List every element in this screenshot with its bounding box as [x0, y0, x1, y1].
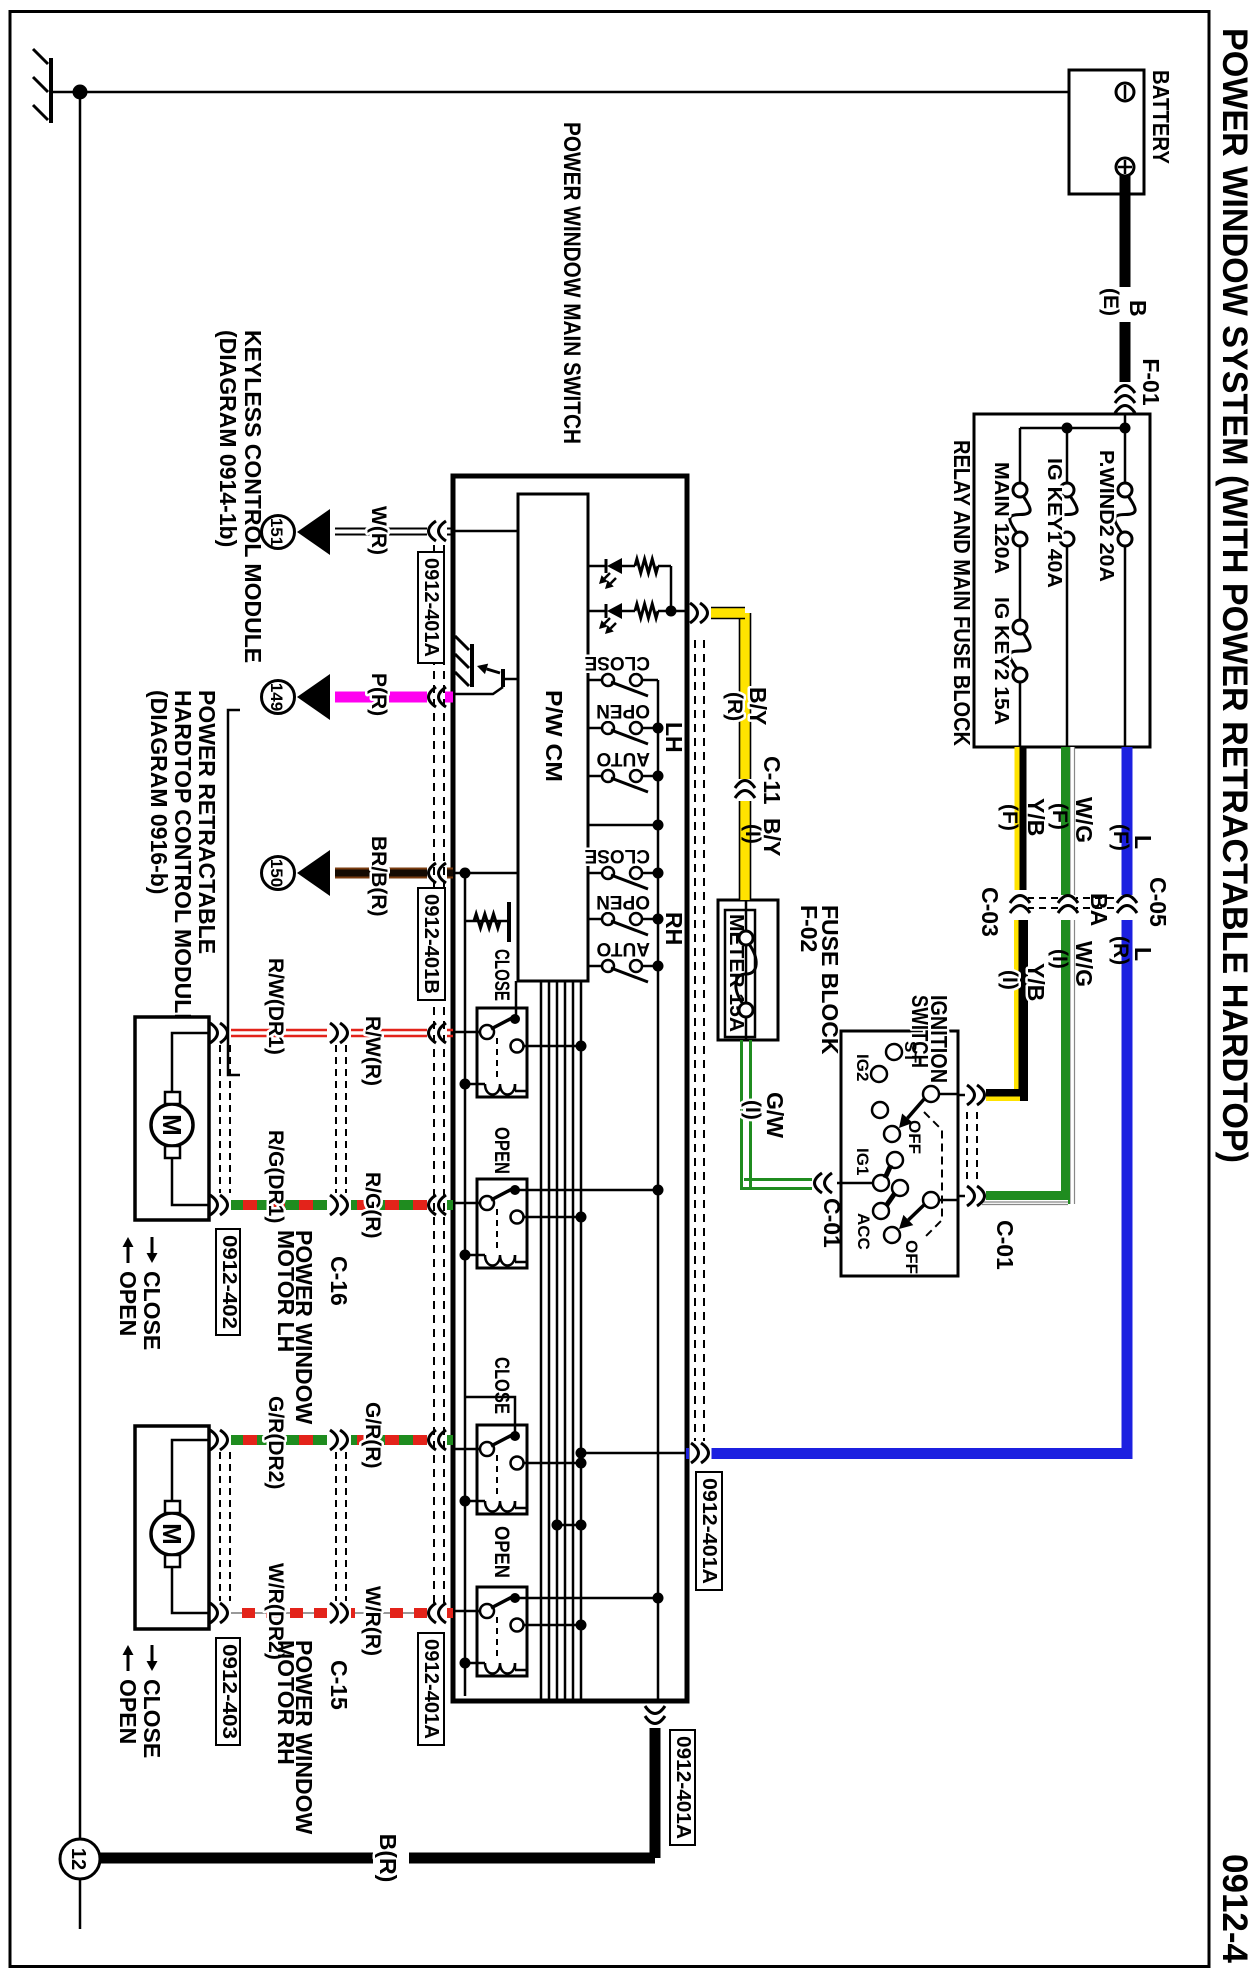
svg-text:KEYLESS CONTROL MODULE: KEYLESS CONTROL MODULE	[240, 330, 266, 663]
svg-text:CLOSE: CLOSE	[139, 1679, 165, 1758]
svg-text:(I): (I)	[1048, 949, 1071, 969]
svg-text:CLOSE: CLOSE	[585, 652, 650, 673]
svg-text:0912-402: 0912-402	[218, 1235, 240, 1329]
svg-text:OPEN: OPEN	[115, 1679, 141, 1744]
svg-text:(I): (I)	[741, 824, 764, 844]
svg-text:(F): (F)	[998, 804, 1021, 831]
svg-text:POWER RETRACTABLE: POWER RETRACTABLE	[194, 690, 220, 954]
svg-text:AUTO: AUTO	[597, 748, 650, 769]
svg-text:OPEN: OPEN	[596, 891, 650, 912]
svg-text:W/G: W/G	[1071, 941, 1097, 987]
svg-text:R/G(DR1): R/G(DR1)	[264, 1130, 287, 1223]
svg-text:(DIAGRAM 0916-b): (DIAGRAM 0916-b)	[146, 690, 172, 894]
svg-text:MOTOR RH: MOTOR RH	[273, 1640, 299, 1765]
svg-text:C-03: C-03	[977, 887, 1003, 937]
svg-text:(E): (E)	[1099, 288, 1122, 316]
svg-text:0912-401B: 0912-401B	[420, 894, 442, 994]
svg-text:C-01: C-01	[992, 1220, 1018, 1270]
svg-text:ACC: ACC	[854, 1213, 873, 1250]
svg-text:CLOSE: CLOSE	[585, 845, 650, 866]
svg-text:Y/B: Y/B	[1023, 963, 1049, 1001]
svg-text:CLOSE: CLOSE	[490, 949, 513, 1001]
svg-text:0912-4: 0912-4	[1215, 1854, 1254, 1964]
svg-text:BR/B(R): BR/B(R)	[367, 836, 390, 916]
svg-text:W/R(R): W/R(R)	[361, 1586, 384, 1656]
svg-text:P.WIND2 20A: P.WIND2 20A	[1095, 450, 1117, 582]
svg-text:IG KEY1 40A: IG KEY1 40A	[1043, 458, 1065, 588]
svg-text:B/Y: B/Y	[745, 687, 771, 725]
svg-text:12: 12	[67, 1848, 89, 1870]
svg-text:MAIN 120A: MAIN 120A	[990, 462, 1012, 574]
svg-text:F-02: F-02	[796, 905, 822, 952]
svg-text:Y/B: Y/B	[1023, 798, 1049, 836]
svg-text:CLOSE: CLOSE	[490, 1357, 513, 1414]
svg-text:CLOSE: CLOSE	[139, 1271, 165, 1350]
svg-text:C-05: C-05	[1145, 877, 1171, 927]
svg-text:0912-401A: 0912-401A	[698, 1478, 720, 1584]
svg-text:AUTO: AUTO	[597, 938, 650, 959]
svg-text:(F): (F)	[1048, 803, 1071, 830]
svg-text:151: 151	[267, 518, 286, 546]
svg-text:POWER WINDOW MAIN SWITCH: POWER WINDOW MAIN SWITCH	[558, 122, 585, 444]
svg-text:M: M	[157, 1523, 187, 1545]
svg-text:R/W(R): R/W(R)	[361, 1016, 384, 1086]
svg-text:(I): (I)	[741, 1100, 764, 1120]
svg-text:G/W: G/W	[762, 1092, 788, 1138]
svg-text:RELAY AND MAIN FUSE BLOCK: RELAY AND MAIN FUSE BLOCK	[949, 440, 975, 746]
svg-text:0912-403: 0912-403	[218, 1644, 240, 1739]
svg-text:MOTOR LH: MOTOR LH	[273, 1230, 299, 1352]
svg-text:B: B	[1125, 300, 1151, 317]
svg-text:C-15: C-15	[326, 1660, 352, 1710]
svg-text:F-01: F-01	[1138, 358, 1164, 406]
svg-text:G/R(R): G/R(R)	[361, 1402, 384, 1469]
svg-text:L: L	[1130, 835, 1156, 849]
svg-text:LH: LH	[661, 722, 687, 753]
svg-text:RH: RH	[661, 912, 687, 945]
svg-text:M: M	[157, 1114, 187, 1136]
svg-text:W(R): W(R)	[367, 506, 390, 555]
svg-text:0912-401A: 0912-401A	[420, 558, 442, 657]
svg-text:(I): (I)	[998, 970, 1021, 990]
svg-text:P/W CM: P/W CM	[541, 690, 567, 782]
svg-text:IG2: IG2	[853, 1054, 872, 1081]
svg-text:(R): (R)	[723, 692, 746, 721]
svg-text:R/G(R): R/G(R)	[361, 1172, 384, 1239]
svg-text:OPEN: OPEN	[115, 1271, 141, 1336]
svg-text:OPEN: OPEN	[490, 1526, 513, 1578]
svg-text:POWER WINDOW SYSTEM (WITH POWE: POWER WINDOW SYSTEM (WITH POWER RETRACTA…	[1215, 28, 1254, 1163]
svg-text:W/G: W/G	[1071, 797, 1097, 843]
svg-text:OPEN: OPEN	[490, 1127, 513, 1174]
svg-text:HARDTOP CONTROL MODULE: HARDTOP CONTROL MODULE	[170, 690, 196, 1029]
svg-text:ST: ST	[901, 1041, 920, 1063]
svg-text:150: 150	[267, 859, 286, 887]
svg-text:149: 149	[267, 683, 286, 711]
svg-text:BATTERY: BATTERY	[1148, 70, 1174, 164]
svg-text:(F): (F)	[1109, 824, 1132, 851]
svg-text:OPEN: OPEN	[596, 700, 650, 721]
svg-text:L: L	[1130, 947, 1156, 961]
svg-text:IG KEY2 15A: IG KEY2 15A	[990, 597, 1012, 725]
svg-text:C-01: C-01	[819, 1198, 845, 1248]
svg-text:C-11: C-11	[759, 756, 785, 805]
svg-text:G/R(DR2): G/R(DR2)	[264, 1396, 287, 1489]
svg-text:B(R): B(R)	[375, 1834, 401, 1883]
svg-text:0912-401A: 0912-401A	[420, 1639, 442, 1739]
svg-text:OFF: OFF	[905, 1120, 924, 1154]
svg-text:(DIAGRAM 0914-1b): (DIAGRAM 0914-1b)	[215, 330, 241, 547]
svg-text:R/W(DR1): R/W(DR1)	[264, 958, 287, 1055]
svg-text:(R): (R)	[1109, 936, 1132, 965]
svg-text:IG1: IG1	[853, 1148, 872, 1175]
svg-text:0912-401A: 0912-401A	[672, 1736, 694, 1839]
svg-text:P(R): P(R)	[367, 673, 390, 716]
svg-text:OFF: OFF	[902, 1240, 921, 1274]
svg-text:C-16: C-16	[326, 1256, 352, 1306]
